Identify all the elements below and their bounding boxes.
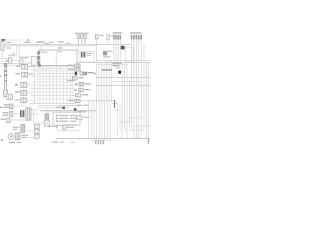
wire bottom main bus xyxy=(56,138,150,140)
wire right horizontals xyxy=(96,77,150,79)
wire drop from fuse xyxy=(46,108,48,114)
wire drop 2 xyxy=(41,46,43,52)
control unit U1 divider xyxy=(55,50,57,65)
wire CB column right vertical xyxy=(34,64,36,103)
node cross right xyxy=(114,100,116,108)
wire at D1 xyxy=(121,71,126,73)
legend pictogram row 2 xyxy=(56,118,58,120)
wire vertical from CB5 xyxy=(33,110,35,123)
control unit U1 box xyxy=(39,50,77,65)
bottom mid cluster box xyxy=(63,125,66,129)
dark node N2 xyxy=(74,108,76,110)
switch arrow S2 xyxy=(75,83,78,86)
legend pictogram row 3 xyxy=(56,120,58,122)
wire bottom mid xyxy=(57,130,80,132)
harness H1 bottom box xyxy=(4,90,8,97)
wire right lower verticals xyxy=(117,104,119,136)
left bottom row LR2 label xyxy=(3,112,9,113)
connector block CB2 row xyxy=(22,72,28,77)
wire bottom-mid verticals (x88-112) xyxy=(88,101,90,139)
connector block CB5 xyxy=(26,108,31,120)
label inside U1 xyxy=(58,51,62,52)
connector CN3 xyxy=(107,35,110,40)
connector R1 xyxy=(75,64,80,67)
wire CN4 drops xyxy=(113,40,115,62)
connector column CB8 xyxy=(35,124,40,128)
legend box L1 xyxy=(53,112,80,125)
connector Q1 xyxy=(76,116,82,120)
connector block CB1 row xyxy=(22,64,28,69)
label R5 xyxy=(85,83,91,84)
striped relay K2 xyxy=(20,110,24,117)
switch S1 xyxy=(9,58,12,64)
right corner tick xyxy=(148,139,149,144)
harness H1 ticks xyxy=(4,70,7,72)
wire label 4 xyxy=(49,42,54,43)
label CB1 right xyxy=(29,66,34,67)
label R6 xyxy=(84,89,90,90)
wire row to mesh 2 xyxy=(0,64,20,66)
wire left edge vertical xyxy=(1,50,3,58)
wire drop to U1 xyxy=(58,46,60,50)
connector block CB4 row xyxy=(21,90,27,95)
label bottom mid xyxy=(67,124,77,125)
label right of CB6 xyxy=(21,135,28,136)
arrow wire into legend xyxy=(50,125,56,127)
tick left edge xyxy=(0,107,2,108)
wire far right verticals xyxy=(143,44,145,130)
crossed box X1 xyxy=(44,121,49,127)
connector block CB3 row xyxy=(21,82,27,87)
wire bottom-mid horizontal bus xyxy=(76,100,114,102)
wire rows to CB5 xyxy=(13,105,26,107)
label Q1 xyxy=(83,117,89,118)
wire cross y56 xyxy=(17,55,32,57)
label R2 xyxy=(68,69,74,70)
relay K1 box outline xyxy=(80,51,94,62)
label CN3 xyxy=(110,35,114,36)
connector R5 xyxy=(79,82,84,86)
label CB4 left xyxy=(15,91,20,92)
label CB2 right xyxy=(29,73,34,74)
wire box outline right of junction xyxy=(125,47,133,62)
label bottom-left small xyxy=(52,141,58,142)
node label block top-left xyxy=(1,39,5,41)
label J1-b xyxy=(6,47,11,48)
tick left edge low xyxy=(1,139,3,140)
diode D1 dark xyxy=(118,71,121,74)
label R3 xyxy=(78,77,83,78)
junction box dark xyxy=(121,46,125,50)
label bottom-left under motor xyxy=(9,142,15,143)
connector group CN1 label xyxy=(75,33,89,34)
harness H1 rails xyxy=(4,67,6,90)
wire CN1 drops xyxy=(78,39,80,52)
label small mid-left xyxy=(13,53,16,57)
wire right-mid verticals (x96-112) xyxy=(96,46,98,102)
wire CB5 to X1 xyxy=(34,122,44,124)
motor M1 circle xyxy=(8,134,14,140)
wire right lower horizontals xyxy=(112,109,120,111)
wire arrow right xyxy=(94,73,96,75)
wire label 1 xyxy=(24,42,31,43)
label CN2 xyxy=(99,35,104,36)
relay K1 label xyxy=(86,53,92,54)
label R8 xyxy=(68,100,74,101)
ground pin ticks bottom xyxy=(95,140,96,144)
label R7 xyxy=(82,94,88,95)
wire drop 1b xyxy=(18,44,20,56)
module M2 label xyxy=(108,51,113,52)
connector block CB6 xyxy=(15,133,20,140)
wire xyxy=(6,39,22,41)
label cluster R4 xyxy=(67,80,74,81)
wire CN5 drops long xyxy=(131,40,133,130)
wire arrow bottom-left xyxy=(50,124,54,126)
wire motor row xyxy=(14,136,15,138)
connector J1 left edge xyxy=(1,41,4,50)
wire bus top horizontal 2 xyxy=(4,45,97,47)
connector R2 xyxy=(75,68,80,71)
tick left xyxy=(0,75,2,76)
connector CN4 pins xyxy=(113,35,115,40)
connector CN1 pin boxes xyxy=(77,35,80,39)
wire CN3 drop xyxy=(107,39,109,44)
connector C6 xyxy=(19,60,23,64)
wire mid horizontals under U1 xyxy=(96,60,150,62)
connector R7 xyxy=(75,94,80,97)
wire R7 left xyxy=(72,94,75,96)
wire S1 feeds xyxy=(0,58,8,60)
label above U1 xyxy=(58,47,63,48)
connector R8 xyxy=(75,99,80,102)
connector group CN5 label xyxy=(130,32,142,34)
node dark at row 3 xyxy=(75,72,78,75)
junction dark box above legend xyxy=(62,106,65,109)
label CB2 left xyxy=(15,73,20,74)
left bottom row LR3 label xyxy=(1,119,6,120)
wire CN2 drop xyxy=(96,39,98,46)
label net row above D1 xyxy=(102,69,112,71)
wire row to mesh 1 xyxy=(0,62,31,64)
label J1-a xyxy=(6,42,11,43)
box B3 xyxy=(31,56,37,65)
switch arrow CB3 xyxy=(15,83,18,86)
connector LR2 xyxy=(9,111,13,116)
label CB1 left xyxy=(16,66,21,67)
dark node on mesh xyxy=(38,64,40,67)
wire mesh center horizontals xyxy=(32,65,74,67)
node A tick xyxy=(27,39,29,41)
label near CB7 xyxy=(13,127,20,128)
connector group CN4 label xyxy=(113,32,123,34)
wire bus top horizontal 1 xyxy=(4,43,130,45)
switch arrow S3 xyxy=(75,89,78,92)
connector block CB4b row xyxy=(21,98,27,103)
module M2 box xyxy=(103,51,107,55)
connector pins left of U1 xyxy=(37,51,40,55)
connector LR1 xyxy=(9,104,13,109)
label cluster right of CN4 drops xyxy=(112,63,121,64)
connector CN5 pins xyxy=(131,35,133,40)
switch S1 label xyxy=(8,55,13,56)
wire mesh center verticals xyxy=(39,66,41,104)
connector C8 striped dark xyxy=(83,72,86,75)
wire CB rows to vertical xyxy=(28,66,35,68)
wire label 2 xyxy=(36,41,44,42)
connector LR3 xyxy=(7,118,10,123)
wire label 6 xyxy=(66,43,70,44)
label R1 xyxy=(68,65,74,66)
harness H1 top box xyxy=(4,63,7,67)
fuse F1 striped xyxy=(45,114,49,120)
connector strip P9 xyxy=(7,94,13,100)
wire drop 1 xyxy=(16,44,18,56)
label C8 xyxy=(88,72,94,73)
striped connector CB7 xyxy=(21,124,25,132)
label inside U1 left xyxy=(41,52,48,53)
connector R3 xyxy=(73,77,78,80)
connector C6 label xyxy=(19,57,28,58)
connector C7 small xyxy=(80,72,83,75)
wire label 5 xyxy=(58,41,64,42)
label above legend xyxy=(56,107,61,108)
connector CN2 xyxy=(95,34,98,39)
label CN1 wire tags xyxy=(78,40,79,44)
label CB4b left xyxy=(15,99,20,100)
label rows under N2 xyxy=(77,111,86,112)
left bottom row LR1 label xyxy=(4,104,9,105)
relay K1 striped body xyxy=(81,52,85,57)
label row4 mid xyxy=(76,105,81,106)
legend pictogram row 1 xyxy=(56,115,58,117)
wire label 3 xyxy=(44,43,49,44)
connector R6 xyxy=(79,88,84,92)
